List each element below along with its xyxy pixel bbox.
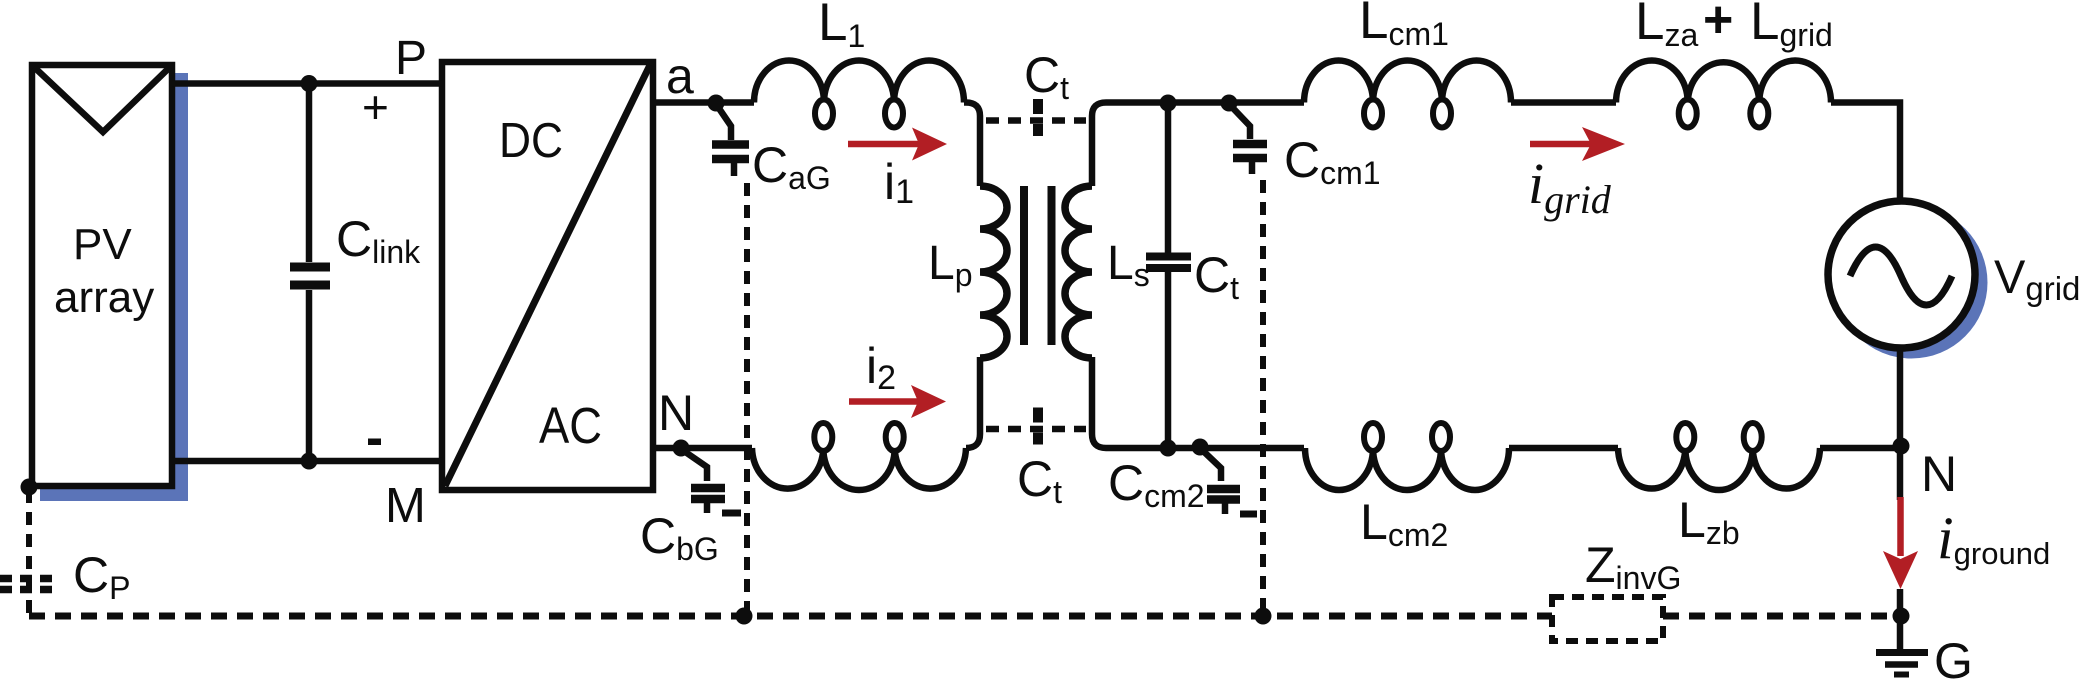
svg-text:PV: PV xyxy=(73,220,132,269)
svg-text:N: N xyxy=(1921,446,1957,502)
svg-text:P: P xyxy=(395,32,427,85)
svg-text:G: G xyxy=(1934,633,1973,683)
svg-text:DC: DC xyxy=(499,114,563,168)
svg-text:+: + xyxy=(362,81,389,133)
svg-text:M: M xyxy=(385,479,426,533)
svg-text:+: + xyxy=(1703,0,1733,49)
svg-text:array: array xyxy=(54,273,154,322)
svg-text:AC: AC xyxy=(539,397,602,454)
svg-text:N: N xyxy=(658,385,694,441)
svg-text:a: a xyxy=(666,48,694,104)
